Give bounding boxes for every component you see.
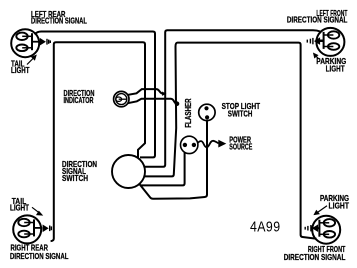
svg-text:DIRECTION SIGNAL: DIRECTION SIGNAL [10, 251, 69, 261]
svg-text:4A99: 4A99 [250, 219, 281, 236]
svg-text:LIGHT: LIGHT [329, 200, 350, 210]
svg-text:SWITCH: SWITCH [62, 173, 88, 183]
svg-text:INDICATOR: INDICATOR [64, 95, 94, 105]
svg-text:LIGHT: LIGHT [11, 65, 30, 75]
svg-text:SOURCE: SOURCE [229, 141, 252, 151]
svg-text:LIGHT: LIGHT [10, 203, 30, 213]
svg-text:LIGHT: LIGHT [326, 64, 346, 74]
svg-text:FLASHER: FLASHER [183, 98, 193, 128]
svg-text:DIRECTION SIGNAL: DIRECTION SIGNAL [287, 14, 348, 24]
svg-text:DIRECTION SIGNAL: DIRECTION SIGNAL [31, 16, 87, 26]
svg-text:SWITCH: SWITCH [228, 108, 253, 118]
svg-text:DIRECTION SIGNAL: DIRECTION SIGNAL [284, 252, 346, 262]
